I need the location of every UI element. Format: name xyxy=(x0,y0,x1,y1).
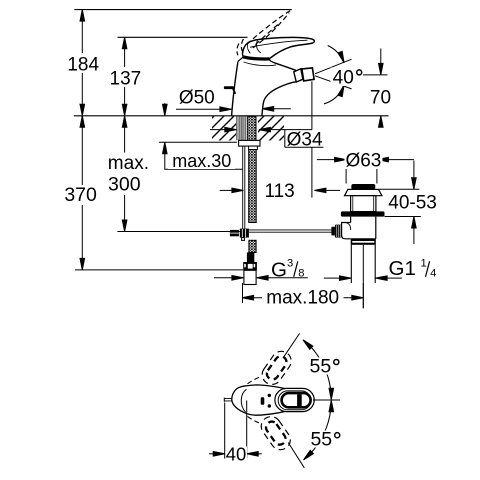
svg-text:370: 370 xyxy=(64,184,97,206)
svg-text:40-53: 40-53 xyxy=(388,193,437,214)
svg-text:3: 3 xyxy=(287,257,293,269)
svg-text:Ø50: Ø50 xyxy=(179,88,215,109)
svg-text:55: 55 xyxy=(310,355,332,377)
svg-text:137: 137 xyxy=(110,69,142,90)
svg-text:G1: G1 xyxy=(389,257,416,280)
svg-text:Ø34: Ø34 xyxy=(287,130,323,151)
svg-text:4: 4 xyxy=(430,267,436,279)
svg-text:1: 1 xyxy=(421,257,427,269)
svg-text:40: 40 xyxy=(226,443,247,464)
svg-text:40: 40 xyxy=(333,68,354,89)
svg-text:70: 70 xyxy=(370,88,391,109)
svg-text:max.180: max.180 xyxy=(266,288,339,309)
svg-text:Ø63: Ø63 xyxy=(345,150,381,171)
svg-text:300: 300 xyxy=(108,174,141,196)
svg-text:G: G xyxy=(271,259,287,282)
svg-text:55: 55 xyxy=(310,429,332,451)
svg-text:113: 113 xyxy=(264,181,294,202)
svg-text:max.30: max.30 xyxy=(172,151,231,171)
svg-text:8: 8 xyxy=(298,267,304,279)
svg-text:184: 184 xyxy=(67,55,99,76)
svg-text:max.: max. xyxy=(108,153,149,174)
